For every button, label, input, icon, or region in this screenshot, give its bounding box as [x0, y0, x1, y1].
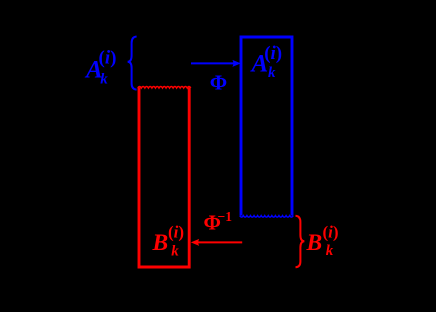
- svg-text:(i): (i): [168, 222, 184, 241]
- svg-text:k: k: [326, 243, 334, 259]
- svg-text:k: k: [268, 65, 276, 81]
- svg-text:(i): (i): [323, 222, 339, 241]
- svg-text:k: k: [100, 72, 108, 88]
- svg-text:(i): (i): [264, 43, 282, 64]
- svg-text:(i): (i): [99, 48, 117, 69]
- svg-text:−1: −1: [218, 209, 233, 224]
- svg-text:B: B: [152, 230, 169, 256]
- svg-text:k: k: [171, 243, 179, 259]
- svg-text:B: B: [306, 230, 323, 256]
- svg-text:Φ: Φ: [210, 71, 227, 95]
